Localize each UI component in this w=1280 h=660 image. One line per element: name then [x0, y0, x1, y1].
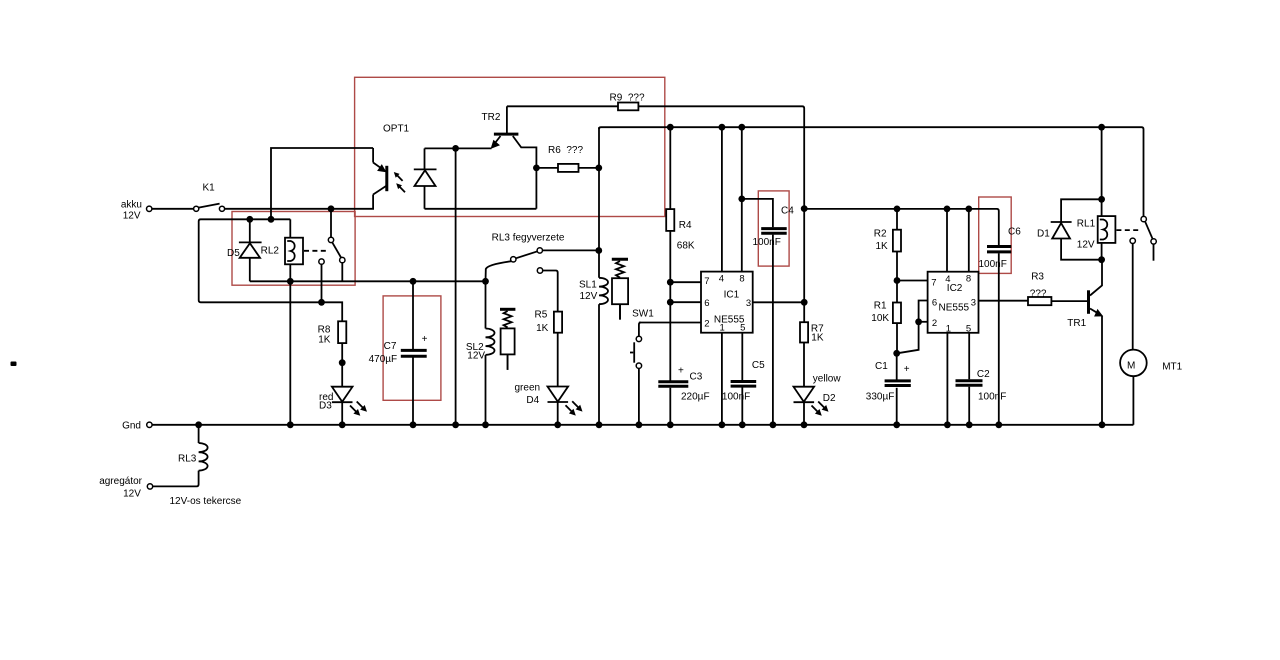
svg-text:D3: D3: [319, 401, 332, 412]
svg-text:agregátor: agregátor: [99, 476, 142, 487]
svg-text:SW1: SW1: [632, 309, 654, 320]
stray mark left margin: [11, 362, 17, 367]
red highlight box C7: [383, 296, 441, 400]
wire IC1 pin1 to ground: [721, 333, 723, 425]
resistor R4: [669, 127, 671, 209]
junction rail/IC1 pin8: [738, 124, 745, 131]
switch K1: [194, 206, 199, 211]
diode D5: [249, 219, 251, 242]
junction gnd/C5: [739, 421, 746, 428]
red highlight box OPT1/TR2 area: [355, 77, 665, 216]
svg-text:100nF: 100nF: [979, 259, 1007, 270]
capacitor C2: [956, 379, 983, 382]
svg-text:R1: R1: [874, 301, 887, 312]
svg-text:D1: D1: [1037, 229, 1050, 240]
wire IC2 pin5 to C2: [968, 333, 970, 380]
junction rail/R2: [894, 206, 901, 213]
svg-text:RL3: RL3: [178, 454, 197, 465]
svg-text:TR2: TR2: [482, 112, 501, 123]
svg-text:10K: 10K: [871, 313, 889, 324]
junction R1/C1/IC2 pin2-6 bracket: [893, 350, 900, 357]
svg-text:2: 2: [704, 319, 709, 330]
motor MT1: [1120, 350, 1147, 377]
junction RL2 top/D5: [246, 216, 253, 223]
svg-text:1K: 1K: [811, 333, 824, 344]
svg-text:C6: C6: [1008, 227, 1021, 238]
svg-text:7: 7: [704, 276, 709, 287]
red highlight box C6: [979, 197, 1012, 273]
wire IC2 pin1 to ground: [946, 333, 948, 425]
svg-text:+: +: [678, 366, 684, 377]
junction gnd/SL1: [596, 421, 603, 428]
svg-text:100nF: 100nF: [722, 392, 750, 403]
solenoid SL2: [485, 281, 487, 328]
wire IC1 pin5 to C5: [741, 333, 743, 381]
capacitor C4: [742, 199, 773, 227]
wire RL2 top line and left bracket to R8: [199, 219, 343, 321]
dashed link RL1: [1116, 229, 1141, 231]
svg-text:R2: R2: [874, 228, 887, 239]
junction SL2 tap: [482, 278, 489, 285]
svg-text:TR1: TR1: [1067, 318, 1086, 329]
junction gnd/IC2 pin1: [944, 421, 951, 428]
svg-text:12V: 12V: [580, 291, 598, 302]
junction rail/R4: [667, 124, 674, 131]
svg-text:12V-os tekercse: 12V-os tekercse: [170, 496, 242, 507]
capacitor C7: [412, 281, 414, 349]
dashed link RL2: [304, 250, 328, 252]
junction gnd/C2: [966, 421, 973, 428]
junction akku/RL2 switch: [328, 205, 335, 212]
ground terminal: [147, 422, 152, 427]
junction gnd/TR1 emitter: [1099, 421, 1106, 428]
junction rail/IC2 pin8: [965, 206, 972, 213]
svg-text:12V: 12V: [123, 211, 141, 222]
resistor R3: [1028, 297, 1051, 305]
svg-text:???: ???: [1030, 289, 1047, 300]
wire IC2 pin3 to R3: [979, 300, 1029, 302]
junction RL2 top/OPT1 wire: [268, 216, 275, 223]
wire IC1 pin3: [753, 301, 805, 303]
junction R9 line / right supply rail: [801, 205, 808, 212]
junction gnd/C3: [667, 421, 674, 428]
svg-text:220µF: 220µF: [681, 392, 710, 403]
svg-text:RL3 fegyverzete: RL3 fegyverzete: [492, 233, 565, 244]
wire IC2 pin2: [919, 321, 928, 323]
svg-text:SL1: SL1: [579, 280, 597, 291]
svg-text:6: 6: [704, 298, 709, 309]
svg-text:green: green: [515, 383, 541, 394]
wire IC1 pin8 to rail: [741, 127, 743, 271]
svg-text:3: 3: [746, 298, 751, 309]
svg-text:akku: akku: [121, 200, 142, 211]
junction SL1 rail / RL3 contact wire: [595, 247, 602, 254]
svg-text:470µF: 470µF: [369, 354, 398, 365]
svg-text:D4: D4: [526, 395, 539, 406]
junction RL1/D1 top: [1098, 196, 1105, 203]
junction TR2 collector / R6: [533, 165, 540, 172]
wire akku to K1: [152, 208, 193, 210]
junction R6 / SL1 rail: [595, 165, 602, 172]
junction NO-contact/R8 line: [318, 299, 325, 306]
junction rail/IC2 pin4: [944, 206, 951, 213]
wire IC1 pin4 to rail: [721, 127, 723, 271]
svg-text:yellow: yellow: [813, 374, 842, 385]
svg-text:D2: D2: [823, 393, 836, 404]
svg-text:2: 2: [932, 318, 937, 329]
svg-text:IC1: IC1: [724, 290, 740, 301]
wire IC1 pin6: [670, 301, 701, 303]
switch RL2 contacts: [328, 237, 333, 242]
red highlight box RL2 area: [232, 212, 355, 286]
wire OPT1 LED top line to TR2 emitter: [425, 147, 492, 149]
wire top supply rail y=127: [599, 127, 1144, 216]
junction gnd/D3: [339, 421, 346, 428]
relay coil RL1: [1098, 216, 1116, 243]
wire IC2 pin7: [897, 280, 928, 282]
wire IC1 pin7: [670, 281, 701, 283]
junction gnd/IC1 pin1: [719, 421, 726, 428]
IC U1 IC1 NE555: [701, 272, 753, 333]
junction R4/IC1 pin6: [667, 299, 674, 306]
wire OPT1 phototransistor box top/left: [271, 148, 373, 219]
svg-text:+: +: [904, 364, 910, 375]
svg-text:4: 4: [719, 273, 724, 284]
relay coil RL2: [289, 219, 291, 237]
svg-text:M: M: [1127, 361, 1135, 372]
junction gnd/D4: [554, 421, 561, 428]
svg-text:K1: K1: [203, 183, 216, 194]
svg-text:C2: C2: [977, 369, 990, 380]
wire akku junction down to RL2 switch: [330, 209, 332, 237]
wire SL1 vertical rail: [598, 127, 600, 278]
svg-text:100nF: 100nF: [978, 392, 1006, 403]
junction pin3/R7 line: [801, 299, 808, 306]
junction bracket/pin2: [915, 318, 922, 325]
svg-text:3: 3: [971, 298, 976, 309]
node akku terminal: [147, 206, 152, 211]
resistor R7: [800, 322, 808, 342]
svg-text:5: 5: [740, 322, 745, 333]
wire R7 feed: [803, 209, 805, 323]
diode D1: [1061, 199, 1102, 259]
svg-text:7: 7: [931, 278, 936, 289]
wire IC1 pin2 from SW1: [639, 322, 701, 324]
svg-text:RL2: RL2: [261, 246, 280, 257]
svg-text:1: 1: [720, 322, 725, 333]
svg-text:6: 6: [932, 298, 937, 309]
LED OPT1 internal: [424, 148, 426, 169]
junction rail/RL1: [1098, 124, 1105, 131]
svg-text:C5: C5: [752, 360, 765, 371]
svg-text:D5: D5: [227, 248, 240, 259]
svg-text:8: 8: [966, 273, 971, 284]
svg-text:+: +: [422, 334, 428, 345]
solenoid SL2 plunger: [500, 308, 515, 311]
junction C7 tap: [410, 278, 417, 285]
junction gnd/C4: [770, 421, 777, 428]
wire RL2 bottom line: [250, 280, 486, 282]
resistor R8: [338, 321, 346, 343]
transistor TR1: [1087, 290, 1090, 314]
junction gnd/RL3: [195, 421, 202, 428]
svg-text:1K: 1K: [318, 335, 331, 346]
junction LED top / bypass line: [452, 145, 459, 152]
resistor R5: [554, 312, 562, 333]
wire right supply rail y=209: [804, 209, 999, 245]
junction R8/D3: [339, 359, 346, 366]
capacitor C1: [896, 353, 898, 380]
svg-text:12V: 12V: [467, 350, 485, 361]
wire ground rail: [152, 424, 1133, 426]
svg-text:RL1: RL1: [1077, 219, 1096, 230]
junction gnd/C1: [893, 421, 900, 428]
svg-text:R3: R3: [1031, 272, 1044, 283]
junction gnd/SL2: [482, 421, 489, 428]
junction gnd/SW1: [636, 421, 643, 428]
svg-text:100nF: 100nF: [753, 237, 781, 248]
resistor R1: [893, 303, 901, 324]
junction RL1 coil bottom/TR1 collector: [1098, 256, 1105, 263]
svg-text:NE555: NE555: [939, 303, 970, 314]
junction R2-R1/IC2 pin7: [894, 277, 901, 284]
wire OPT1 LED bottom line: [425, 208, 537, 210]
relay coil RL3: [198, 425, 200, 443]
junction gnd/RL2 coil: [287, 421, 294, 428]
svg-text:68K: 68K: [677, 241, 695, 252]
red highlight box C4: [758, 191, 789, 266]
svg-text:12V: 12V: [123, 489, 141, 500]
svg-text:C4: C4: [781, 206, 794, 217]
solenoid SL1 plunger: [612, 258, 628, 261]
svg-text:Gnd: Gnd: [122, 421, 141, 432]
wire IC2 pin6/pin2 bracket: [897, 301, 928, 354]
junction gnd/C7: [410, 421, 417, 428]
junction gnd/bypass: [452, 421, 459, 428]
junction RL2 coil bottom: [287, 278, 294, 285]
svg-text:R4: R4: [679, 220, 692, 231]
wire IC2 pin8 to rail: [968, 209, 970, 272]
light arrows OPT1: [397, 175, 403, 181]
capacitor C6: [987, 245, 1011, 248]
coil SL1: [599, 278, 608, 304]
wire akku rail to OPT1: [225, 195, 374, 209]
resistor R2: [896, 209, 898, 230]
wire RL2 coil bottom to ground: [289, 281, 291, 425]
svg-text:1K: 1K: [876, 241, 889, 252]
svg-text:R6 ???: R6 ???: [548, 145, 583, 156]
svg-text:C1: C1: [875, 361, 888, 372]
svg-text:MT1: MT1: [1162, 362, 1182, 373]
junction R4/IC1 pin7: [667, 279, 674, 286]
svg-text:1K: 1K: [536, 323, 549, 334]
wire bypass vertical x=455.6 to ground: [455, 148, 457, 424]
svg-text:330µF: 330µF: [866, 392, 895, 403]
svg-text:R5: R5: [535, 309, 548, 320]
svg-text:C7: C7: [384, 341, 397, 352]
junction gnd/D2: [801, 421, 808, 428]
svg-text:C3: C3: [690, 372, 703, 383]
relay RL1 supply: [1101, 127, 1103, 216]
junction IC1 pin8 / C4 tap: [738, 196, 745, 203]
junction rail/IC1 pin4: [719, 124, 726, 131]
svg-text:IC2: IC2: [947, 283, 963, 294]
svg-text:12V: 12V: [1077, 240, 1095, 251]
svg-text:8: 8: [739, 273, 744, 284]
transistor OPT1 phototransistor: [372, 148, 374, 163]
IC U2 IC2 NE555: [928, 272, 979, 333]
switch RL1 contacts: [1141, 216, 1146, 221]
svg-text:OPT1: OPT1: [383, 124, 410, 135]
wire IC2 pin4 to rail: [946, 209, 948, 272]
junction gnd/C6: [995, 421, 1002, 428]
